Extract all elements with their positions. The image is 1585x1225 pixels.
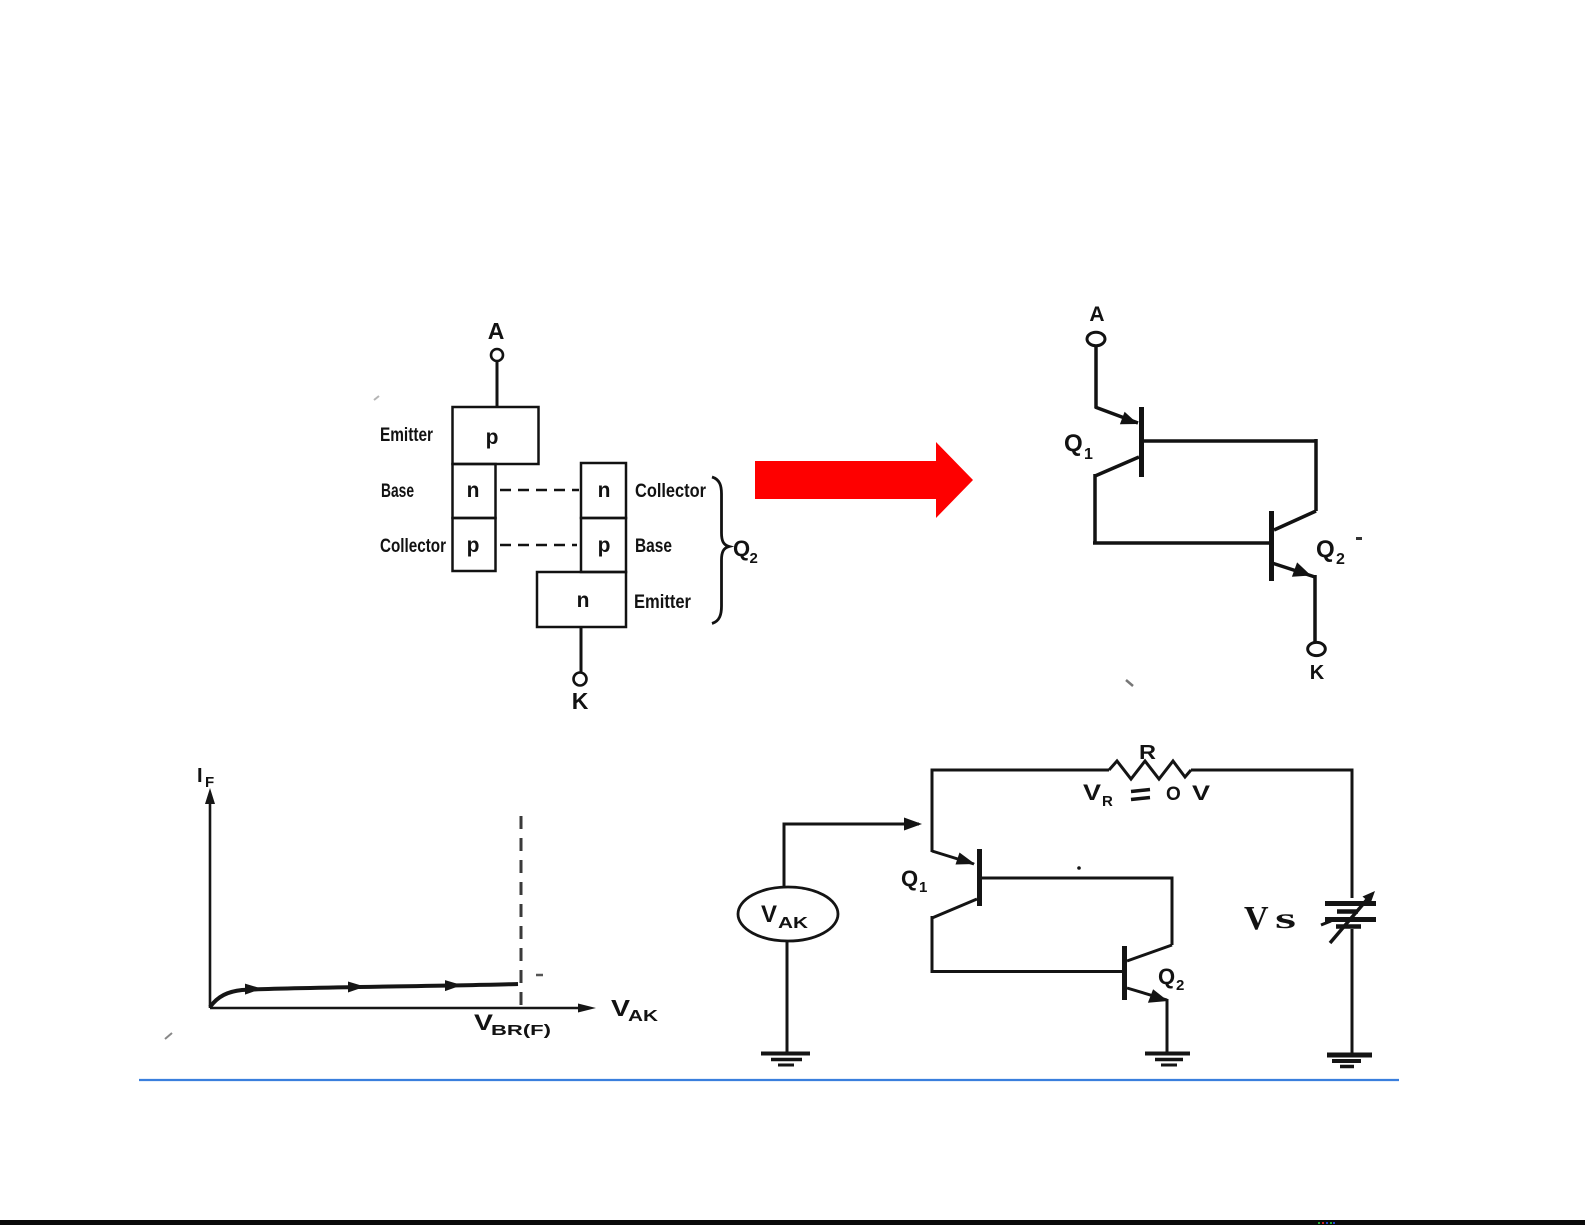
wire Q2 emitter down (1166, 999, 1169, 1053)
curve forward characteristic (210, 984, 518, 1007)
emitter n region box (Q2) (537, 572, 626, 627)
svg-text:n: n (577, 589, 590, 612)
wire Q1 base right (981, 877, 1172, 880)
svg-text:BR(F): BR(F) (491, 1022, 551, 1039)
svg-text:K: K (572, 688, 589, 714)
svg-text:V: V (761, 901, 777, 928)
svg-text:Emitter: Emitter (634, 592, 692, 613)
wire bottom to Q2 base (1093, 541, 1269, 545)
transistor Q1 base bar (977, 849, 982, 906)
transistor Q1 collector diagonal (1095, 457, 1139, 476)
svg-text:V: V (1244, 900, 1269, 937)
wire top right (1191, 769, 1352, 772)
x axis VAK (210, 1007, 590, 1010)
transistor Q2 emitter diagonal (1127, 988, 1167, 1000)
svg-text:Base: Base (381, 481, 414, 502)
wire VAK vertical bottom (786, 941, 789, 1052)
svg-text:A: A (488, 318, 505, 344)
svg-text:2: 2 (1176, 977, 1184, 994)
svg-text:R: R (1139, 742, 1157, 764)
tick mark near Q2 (1356, 537, 1362, 540)
resistor R (1109, 761, 1191, 779)
arrowhead Q1 emitter (1120, 412, 1138, 424)
svg-text:AK: AK (778, 915, 809, 932)
transistor Q2 base bar (1122, 946, 1127, 1000)
wire A down (1094, 346, 1098, 408)
ground VAK (761, 1052, 810, 1056)
transistor Q1 collector diagonal (932, 899, 977, 918)
transistor Q2 collector diagonal (1274, 511, 1316, 530)
wire dashed n-n (500, 489, 579, 492)
wire down left (1093, 474, 1097, 543)
svg-text:1: 1 (1084, 446, 1093, 463)
svg-text:O: O (1166, 784, 1181, 805)
battery Vs plate long 1 (1325, 901, 1376, 906)
arrowhead Q1 emitter (956, 853, 976, 865)
wire bottom horizontal (932, 970, 1122, 973)
svg-text:p: p (486, 426, 499, 449)
svg-text:Emitter: Emitter (380, 425, 433, 446)
arrowhead Q2 emitter (1148, 989, 1168, 1002)
source VAK ellipse (738, 887, 838, 941)
noise dot (1077, 866, 1081, 870)
transistor Q1 emitter diagonal (932, 851, 974, 864)
wire top left (932, 769, 1109, 772)
svg-text:Collector: Collector (635, 481, 707, 502)
ground Vs (1327, 1053, 1372, 1058)
transistor Q2 emitter diagonal (1272, 563, 1315, 577)
wire left vertical (931, 769, 934, 853)
battery Vs variable slash (1330, 896, 1370, 943)
wire A to emitter box (496, 362, 499, 408)
wire Q1 base to right (1141, 439, 1316, 443)
node K terminal circle (574, 673, 587, 686)
svg-text:AK: AK (628, 1008, 659, 1025)
wire down to Q2 collector (1314, 439, 1318, 511)
svg-text:2: 2 (1336, 551, 1345, 568)
arrowhead Vs slash (1363, 891, 1376, 904)
wire dashed p-p (500, 544, 577, 547)
svg-text:2: 2 (750, 550, 758, 567)
dashed breakover line (520, 816, 523, 1008)
arrowhead curve 1 (245, 984, 262, 995)
svg-text:p: p (598, 534, 611, 557)
arrowhead y axis (205, 788, 215, 804)
collector n region box (Q2) (581, 463, 626, 518)
battery Vs plate short 2 (1336, 924, 1361, 929)
svg-text:V: V (1192, 782, 1210, 805)
base p region box (Q2) (581, 518, 626, 572)
svg-text:n: n (598, 479, 611, 502)
emitter p region box (453, 407, 539, 464)
svg-text:s: s (1275, 902, 1296, 935)
noise mark graph (165, 1033, 172, 1039)
arrowhead x axis (578, 1004, 596, 1013)
node A terminal circle (491, 349, 503, 361)
arrowhead curve 2 (348, 982, 365, 993)
svg-text:p: p (467, 534, 480, 557)
battery Vs plate short 1 (1337, 909, 1358, 914)
arrowhead VAK gate arrow (904, 818, 922, 831)
battery Vs small tick (1321, 921, 1331, 925)
source VAK arrow wire (784, 823, 919, 826)
y axis IF (209, 795, 212, 1008)
svg-text:Base: Base (635, 536, 672, 557)
svg-text:K: K (1310, 662, 1325, 684)
svg-text:Collector: Collector (380, 536, 446, 557)
wire Vs vertical top (1351, 769, 1354, 899)
svg-text:A: A (1089, 303, 1104, 326)
noise dash near dashed line (536, 974, 543, 977)
transistor Q2 base bar (1269, 511, 1274, 581)
wire left vertical 2 (931, 916, 934, 973)
wire Vs vertical bottom (1351, 929, 1354, 1053)
svg-text:Q: Q (1064, 430, 1083, 457)
transistor Q1 base bar (1139, 407, 1144, 477)
wire right vertical (1171, 877, 1174, 946)
svg-text:R: R (1102, 793, 1113, 810)
battery Vs plate long 2 (1325, 917, 1376, 922)
svg-text:Q: Q (733, 536, 750, 561)
node A terminal circle (1087, 332, 1105, 345)
transistor Q1 emitter diagonal (1095, 407, 1138, 423)
svg-text:I: I (197, 765, 203, 787)
svg-text:F: F (205, 774, 214, 791)
transistor Q2 collector diagonal (1127, 945, 1172, 961)
arrowhead Q2 emitter (1292, 562, 1311, 576)
node K terminal circle (1308, 642, 1326, 655)
brace Q2 (712, 477, 729, 624)
svg-text:V: V (1083, 780, 1101, 805)
svg-text:Q: Q (1158, 964, 1175, 989)
tick mark bottom noise (1126, 680, 1133, 686)
base n region box (453, 464, 496, 518)
svg-text:n: n (467, 479, 480, 502)
wire emitter to K (580, 627, 583, 672)
wire Q2 emitter to K (1313, 575, 1317, 643)
arrowhead curve 3 (445, 980, 462, 991)
wire VAK vertical top (783, 823, 786, 888)
svg-text:Q: Q (1316, 536, 1335, 563)
svg-text:Q: Q (901, 866, 918, 891)
ground Q2 (1145, 1052, 1190, 1056)
taskbar colored dots (1318, 1222, 1335, 1224)
svg-text:1: 1 (919, 879, 927, 896)
collector p region box (453, 518, 496, 571)
noise mark left diagram edge (374, 396, 379, 400)
